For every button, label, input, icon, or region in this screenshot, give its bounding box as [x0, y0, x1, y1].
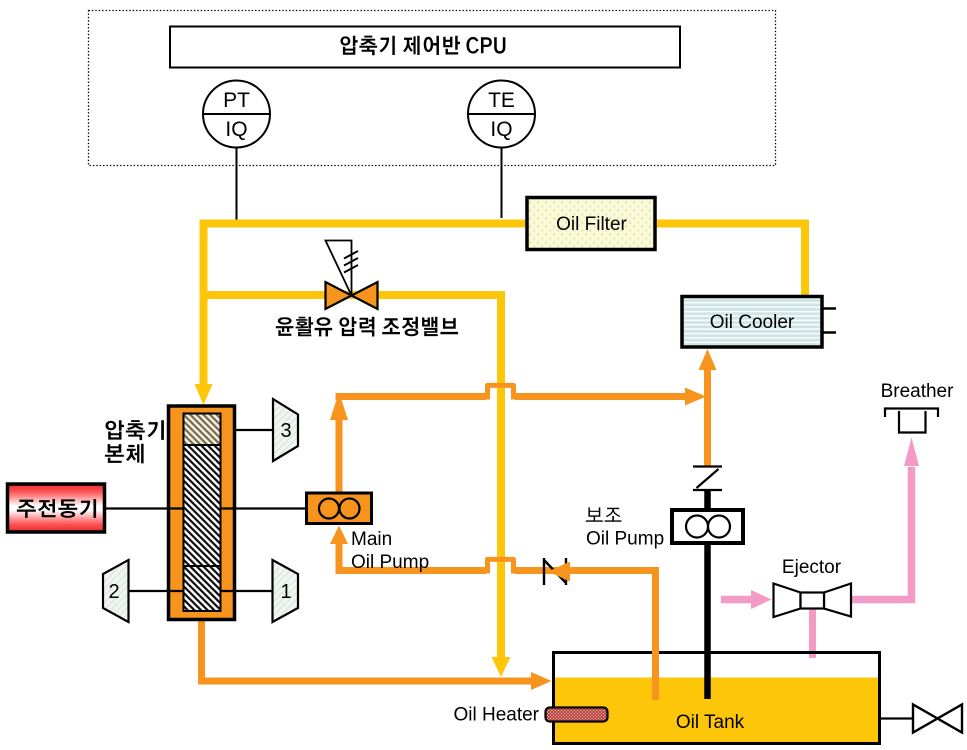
- svg-text:3: 3: [280, 420, 291, 442]
- svg-text:Oil Pump: Oil Pump: [586, 529, 664, 550]
- svg-text:Oil Heater: Oil Heater: [453, 705, 539, 726]
- svg-text:1: 1: [280, 581, 291, 603]
- svg-text:Breather: Breather: [881, 381, 955, 402]
- svg-text:PT: PT: [223, 89, 250, 112]
- svg-text:2: 2: [108, 581, 119, 603]
- svg-text:Oil Pump: Oil Pump: [351, 552, 429, 573]
- svg-text:Oil Filter: Oil Filter: [556, 214, 627, 235]
- svg-text:Oil Tank: Oil Tank: [676, 712, 745, 733]
- svg-text:IQ: IQ: [225, 118, 247, 141]
- svg-text:Ejector: Ejector: [782, 557, 842, 578]
- svg-text:IQ: IQ: [490, 118, 512, 141]
- svg-text:Main: Main: [351, 529, 392, 550]
- svg-text:TE: TE: [488, 89, 515, 112]
- svg-text:Oil Cooler: Oil Cooler: [710, 312, 795, 333]
